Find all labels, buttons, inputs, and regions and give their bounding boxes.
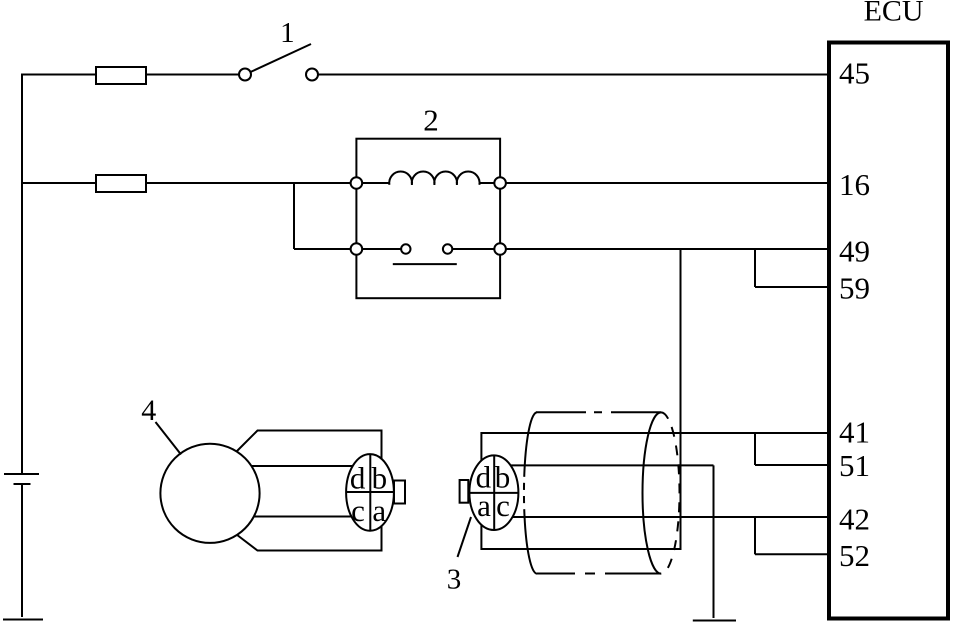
svg-text:2: 2: [423, 103, 439, 138]
svg-text:a: a: [477, 488, 491, 523]
svg-text:45: 45: [839, 55, 870, 90]
svg-text:a: a: [372, 493, 386, 528]
svg-text:4: 4: [141, 394, 156, 427]
svg-text:3: 3: [447, 564, 462, 596]
svg-text:c: c: [351, 493, 365, 528]
svg-text:52: 52: [839, 538, 870, 573]
svg-text:42: 42: [839, 501, 870, 536]
svg-text:ECU: ECU: [864, 0, 924, 27]
svg-text:b: b: [372, 461, 388, 496]
svg-text:59: 59: [839, 271, 870, 306]
svg-text:51: 51: [839, 448, 870, 483]
svg-text:1: 1: [280, 17, 295, 49]
svg-text:d: d: [350, 461, 366, 496]
svg-text:c: c: [496, 488, 510, 523]
svg-text:49: 49: [839, 234, 870, 269]
svg-text:16: 16: [839, 167, 870, 202]
svg-text:41: 41: [839, 415, 870, 450]
